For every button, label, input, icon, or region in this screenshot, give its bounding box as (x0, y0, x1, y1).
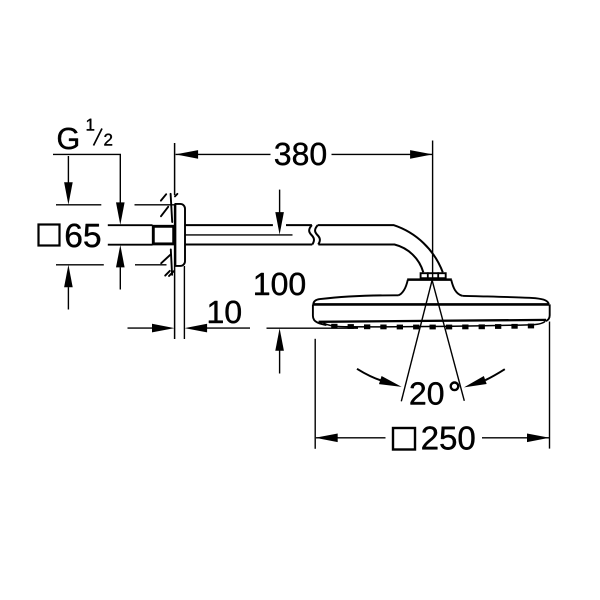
rim top line (313, 303, 549, 306)
leader line under G 1/2 (53, 154, 120, 202)
20 degree fan lines (401, 281, 464, 402)
square union nut (153, 226, 173, 244)
face underside bulge (324, 321, 546, 327)
shower head outline (313, 295, 398, 304)
curved arrow right (485, 369, 505, 380)
pipe break squiggle 1 (309, 225, 314, 244)
100 dimension (255, 273, 305, 296)
G1/2 arrow down to pipe top (116, 202, 125, 225)
pipe break squiggle 2 (315, 225, 320, 244)
wall line (174, 143, 176, 339)
supply pipe nipple behind wall (108, 225, 153, 245)
head left edge (313, 304, 327, 325)
curved arrow left (357, 369, 383, 381)
spray nozzles (331, 324, 534, 330)
square symbol 65 (39, 225, 60, 246)
head right edge (546, 304, 550, 321)
10 dimension (209, 301, 241, 324)
G 1/2 label (58, 128, 78, 150)
wall break marks bottom (161, 250, 173, 277)
65 extension lines (56, 205, 175, 265)
20 degree label (411, 382, 444, 405)
wall break marks top (161, 194, 178, 222)
250 dimension (393, 428, 415, 450)
380 dimension (275, 143, 326, 166)
ball joint nut (421, 273, 446, 278)
65 label (66, 224, 100, 248)
shower arm bottom edge (185, 245, 423, 273)
rim bottom line (319, 320, 546, 322)
escutcheon flange (175, 204, 185, 266)
shower arm centerline (185, 234, 293, 236)
65 dim arrows (67, 156, 69, 183)
shower arm top edge (185, 225, 443, 272)
G1/2 arrow up to pipe bottom (116, 245, 125, 268)
